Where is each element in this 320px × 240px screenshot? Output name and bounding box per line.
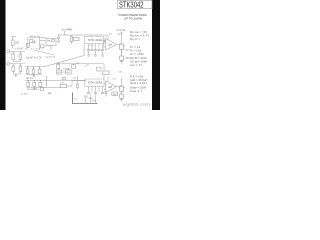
capacitor C8 at op-amp A input xyxy=(103,38,105,49)
resistor load RL2 xyxy=(120,94,123,98)
capacitor C19 output electrolytic ch2 xyxy=(120,86,123,94)
op-amp U3 triangle channel A xyxy=(106,38,117,50)
wire mid to x104 down xyxy=(103,64,105,79)
input jack J2 xyxy=(7,62,13,65)
capacitor C20 near output ch2 xyxy=(105,92,118,97)
svg-text:LM: LM xyxy=(108,85,112,89)
resistor R6 xyxy=(29,40,33,43)
svg-text:Cg 4n7 4n7 Ck: Cg 4n7 4n7 Ck xyxy=(26,58,42,60)
title box border xyxy=(118,0,153,8)
junction dots ch2 xyxy=(28,80,41,81)
svg-text:RB: RB xyxy=(47,41,51,43)
svg-text:wgdbb.com: wgdbb.com xyxy=(123,103,151,107)
svg-text:R = 10k: R = 10k xyxy=(130,48,142,52)
relay box K1 xyxy=(40,36,56,50)
capacitor C3 xyxy=(38,67,41,74)
svg-text:Note 1 0.047: Note 1 0.047 xyxy=(130,81,148,85)
svg-text:STK-3042: STK-3042 xyxy=(88,82,103,85)
wire bottom row1 xyxy=(13,61,20,63)
svg-text:2k2 4n7 2k2: 2k2 4n7 2k2 xyxy=(27,89,40,91)
capacitor C13 xyxy=(39,81,42,87)
wire diagonal signal to U1 xyxy=(44,44,84,67)
svg-text:22k: 22k xyxy=(61,82,64,84)
svg-text:DZ M = 10uF: DZ M = 10uF xyxy=(130,56,147,60)
svg-text:1 2 3 4 5: 1 2 3 4 5 xyxy=(88,45,95,47)
box feedback R21 ch2 xyxy=(47,76,72,88)
ground under load xyxy=(120,60,123,63)
svg-text:B+ 2k 4u C: B+ 2k 4u C xyxy=(25,48,43,50)
svg-text:CM: CM xyxy=(84,97,88,99)
output line channel A xyxy=(120,32,122,45)
wires U1 pins down xyxy=(89,44,103,49)
wire diagonal upper left xyxy=(34,50,54,55)
wire op-amp A output xyxy=(116,43,121,45)
wire mid bottom xyxy=(26,73,42,74)
wires caps to ground row xyxy=(89,51,103,55)
box small ch2 mid xyxy=(62,77,65,79)
wire Vcc drop xyxy=(64,31,66,35)
svg-text:Lw: Lw xyxy=(119,72,122,74)
box D1 xyxy=(56,65,60,68)
junction dots mid bus xyxy=(27,66,40,67)
notes column group 1 xyxy=(130,30,150,41)
svg-text:STK-3042: STK-3042 xyxy=(88,39,103,42)
op-amp U3 input marks xyxy=(104,41,106,47)
svg-text:Rg cc = ...: Rg cc = ... xyxy=(130,37,144,41)
ground mid xyxy=(32,74,35,76)
ground under load ch2 xyxy=(120,98,123,101)
svg-text:1uF: 1uF xyxy=(48,93,53,95)
box R13 xyxy=(71,65,75,68)
wire input row 1 xyxy=(13,51,25,53)
box WF1 xyxy=(103,71,109,75)
svg-text:Cdd = 15.5uF: Cdd = 15.5uF xyxy=(130,78,147,82)
svg-text:10u: 10u xyxy=(73,78,76,80)
mid band wire y64 xyxy=(57,63,104,65)
svg-text:STK3042: STK3042 xyxy=(119,0,144,9)
svg-text:DZ 5B1: DZ 5B1 xyxy=(63,69,71,71)
resistor R2 xyxy=(19,52,22,62)
resistor load RL1 xyxy=(120,56,124,60)
capacitor row under U2 xyxy=(87,92,104,93)
notes column group 4 xyxy=(130,74,148,93)
resistor R3 xyxy=(12,64,15,74)
svg-text:R8 1k C2: R8 1k C2 xyxy=(30,36,40,38)
capacitor C12 xyxy=(33,81,36,87)
wire bottom row2 xyxy=(13,73,20,75)
diagonal short xyxy=(85,64,89,67)
op-amp U4 triangle channel B xyxy=(106,81,117,93)
svg-text:LM: LM xyxy=(108,43,112,47)
resistor R22 ch2 xyxy=(76,76,79,90)
svg-text:+ A 1uF: + A 1uF xyxy=(15,48,23,51)
resistor R5 top-left xyxy=(11,37,16,49)
wires U2 pins down xyxy=(89,86,103,92)
capacitor C1 xyxy=(26,67,29,74)
wire Vcc rail xyxy=(58,34,105,36)
svg-text:8R: 8R xyxy=(126,58,129,60)
svg-text:C=4.7uF: C=4.7uF xyxy=(117,30,126,32)
wire cap to load xyxy=(121,50,123,56)
wire input row 2 xyxy=(13,63,25,65)
svg-text:P.A = 30k: P.A = 30k xyxy=(130,74,144,78)
capacitor C2 xyxy=(32,67,35,74)
wire upper-left bus xyxy=(28,38,46,48)
resistor R4 xyxy=(19,64,22,74)
ground bus bottom xyxy=(72,93,97,104)
wire ch2 into U2 xyxy=(72,79,86,86)
output line ch2 xyxy=(121,78,123,86)
IC U2 STK-3042 channel B box xyxy=(85,79,105,86)
svg-text:VCC=40V: VCC=40V xyxy=(62,28,73,32)
capacitor C5 xyxy=(33,40,35,44)
box small ch2 left xyxy=(40,88,43,91)
capacitor C7 electrolytic on rail xyxy=(57,35,60,41)
wire ch2 input bus xyxy=(25,80,86,82)
box R12 xyxy=(66,70,72,74)
wire rail drop to IC A xyxy=(91,35,97,36)
notes column group 3 xyxy=(130,56,147,67)
resistor R9 vertical on rail xyxy=(70,35,73,44)
IC U1 STK-3042 channel A box xyxy=(85,36,105,43)
svg-text:UP TO 2x40W: UP TO 2x40W xyxy=(124,17,143,21)
box R11 xyxy=(56,70,62,74)
svg-text:Cr = 100n: Cr = 100n xyxy=(130,52,145,56)
svg-text:2x 15V: 2x 15V xyxy=(21,94,28,96)
wire rail into op-amp power xyxy=(104,35,108,40)
capacitor C4 small xyxy=(41,45,44,48)
wire mid band verticals xyxy=(59,64,73,72)
wire mid bus xyxy=(25,66,44,68)
resistor R7 xyxy=(26,43,29,47)
ground ch2 input xyxy=(33,87,36,89)
risers to ground bus xyxy=(86,94,96,104)
ground bus ticks xyxy=(75,102,96,105)
svg-text:led = 2x: led = 2x xyxy=(130,63,143,67)
wire into op-amp B power xyxy=(107,77,109,82)
notes column group 2 xyxy=(130,45,145,56)
resistor box R10 xyxy=(74,37,80,41)
svg-text:Ub 2 G: Ub 2 G xyxy=(26,78,33,80)
input jack J1 xyxy=(7,50,13,53)
svg-text:Rg bb = 4.7k: Rg bb = 4.7k xyxy=(130,33,150,37)
op-amp U4 input marks xyxy=(104,83,106,89)
ground row2 xyxy=(14,74,17,76)
svg-text:Draw = 10uF: Draw = 10uF xyxy=(130,86,146,90)
capacitor C9 output electrolytic xyxy=(120,44,123,53)
ground under C7 xyxy=(57,42,60,43)
svg-text:CZ aa = 10uF: CZ aa = 10uF xyxy=(130,60,147,64)
svg-text:100n: 100n xyxy=(89,98,93,100)
capacitor row under U1 xyxy=(87,49,104,50)
ground symbols under U1 xyxy=(87,55,104,56)
capacitor C11 xyxy=(27,81,30,87)
resistor R1 xyxy=(12,52,15,62)
svg-text:Caw 4.7: Caw 4.7 xyxy=(130,89,143,93)
left black border bar xyxy=(0,0,6,110)
right black border bar xyxy=(152,0,160,110)
svg-text:Cg 4n7 2k: Cg 4n7 2k xyxy=(45,57,56,59)
resistor R14 xyxy=(97,68,102,72)
wire op-amp B output xyxy=(116,86,121,88)
wire ch2 bottom bus xyxy=(27,86,61,87)
svg-text:Rg aa = (D): Rg aa = (D) xyxy=(130,30,147,34)
